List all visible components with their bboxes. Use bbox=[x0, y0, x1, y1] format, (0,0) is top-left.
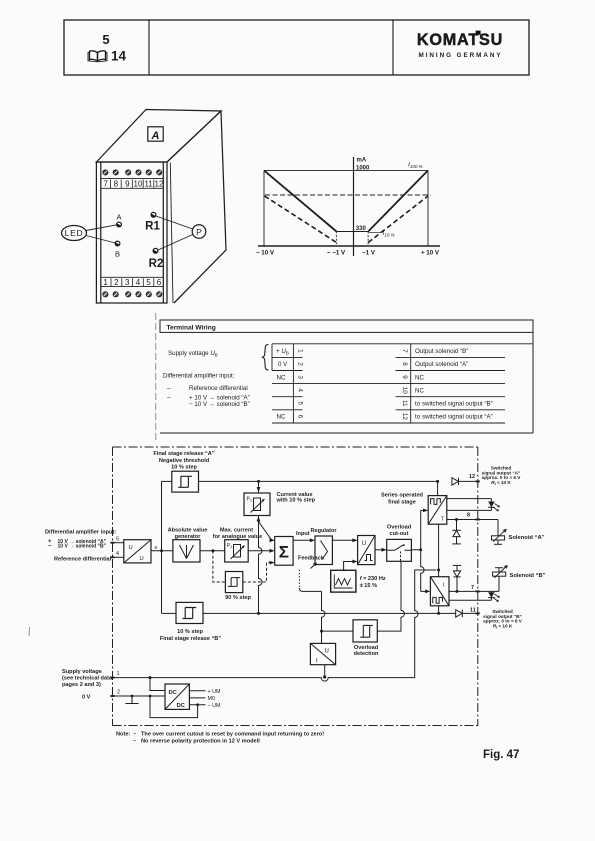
regulator box bbox=[315, 536, 332, 565]
PWM pulse symbol bbox=[365, 555, 373, 561]
svg-text:0 V: 0 V bbox=[278, 361, 288, 368]
wire stage B out lower bbox=[449, 599, 491, 601]
regulator ramp symbol bbox=[321, 541, 328, 560]
label overload detection bbox=[354, 645, 379, 657]
svg-text:9: 9 bbox=[125, 180, 130, 189]
svg-text:12: 12 bbox=[469, 474, 475, 480]
SECTION:DEVICE bbox=[62, 110, 227, 304]
overload cut-out box bbox=[387, 539, 412, 561]
wire UI to overload detection bbox=[322, 591, 354, 643]
front panel inner left edge bbox=[100, 162, 102, 303]
wire solenoid A drop bbox=[497, 520, 499, 536]
svg-text:Final stage release “B”: Final stage release “B” bbox=[160, 636, 221, 642]
arrow into summer bottom bbox=[270, 561, 275, 565]
frame border top bbox=[113, 446, 478, 448]
left cell block verticals bbox=[271, 344, 273, 371]
svg-text:1: 1 bbox=[296, 349, 303, 353]
row line top full bbox=[272, 343, 533, 345]
svg-text:cut-out: cut-out bbox=[390, 531, 409, 537]
svg-text:Differential amplifier input:: Differential amplifier input: bbox=[45, 530, 116, 536]
svg-text:Final stage release “A”: Final stage release “A” bbox=[153, 451, 214, 457]
KOMATSU logo square dot bbox=[476, 31, 481, 35]
terminal 7 tick bbox=[476, 590, 480, 592]
wire UI to rail bbox=[324, 665, 326, 677]
PWM diagonal bbox=[358, 536, 375, 565]
dotted feedback path bbox=[298, 570, 300, 588]
svg-text:R2: R2 bbox=[149, 258, 164, 270]
U/U diagonal bbox=[124, 540, 151, 563]
svg-text:Solenoid “A”: Solenoid “A” bbox=[509, 535, 545, 541]
svg-text:Solenoid “B”: Solenoid “B” bbox=[510, 573, 546, 579]
svg-text:5: 5 bbox=[296, 402, 303, 406]
terminal 5 tick bbox=[110, 542, 114, 544]
90% step symbol bbox=[228, 578, 240, 587]
threshold box release B bbox=[176, 602, 203, 623]
svg-text:MINING GERMANY: MINING GERMANY bbox=[419, 52, 503, 59]
wire input 4 bbox=[113, 556, 124, 558]
wire release A left bbox=[162, 480, 172, 482]
svg-text:Output solenoid “A”: Output solenoid “A” bbox=[415, 361, 468, 368]
svg-text:− 10 V → solenoid “B”: − 10 V → solenoid “B” bbox=[189, 401, 250, 408]
wire abs to P2 bbox=[200, 550, 225, 552]
-1V dropline bbox=[336, 232, 338, 247]
svg-text:1000: 1000 bbox=[356, 166, 370, 172]
I10% pointer bbox=[369, 232, 381, 234]
U/I diagonal bbox=[310, 643, 335, 664]
svg-text:mA: mA bbox=[357, 158, 367, 164]
svg-text:Supply voltage UB: Supply voltage UB bbox=[168, 350, 218, 357]
P1 trimmer symbol bbox=[251, 498, 265, 513]
frame border left bbox=[112, 447, 114, 726]
LED callout line to A bbox=[86, 225, 117, 231]
svg-text:7: 7 bbox=[401, 349, 408, 353]
svg-text:3: 3 bbox=[125, 278, 130, 287]
wire release B left bbox=[162, 612, 177, 614]
wire terminal 8 bbox=[447, 519, 498, 521]
terminal 11 tick bbox=[476, 612, 480, 614]
row line r1 stubs bbox=[272, 356, 303, 358]
svg-text:Reference differential: Reference differential bbox=[189, 385, 248, 392]
svg-text:–: – bbox=[133, 732, 136, 738]
svg-text:8: 8 bbox=[401, 362, 408, 366]
current sense U/I box bbox=[310, 643, 335, 664]
svg-text:2: 2 bbox=[117, 690, 120, 696]
svg-text:Fig. 47: Fig. 47 bbox=[483, 749, 519, 761]
table bottom border bbox=[160, 432, 533, 434]
node final stage B bottom junction bbox=[437, 612, 440, 615]
svg-text:LED: LED bbox=[65, 228, 84, 238]
svg-text:KOMATSU: KOMATSU bbox=[417, 31, 503, 49]
x axis bbox=[258, 245, 440, 247]
label A box on top face bbox=[148, 127, 163, 141]
svg-text:No reverse polarity protection: No reverse polarity protection in 12 V m… bbox=[141, 739, 260, 745]
dashed characteristic right bbox=[368, 196, 428, 243]
svg-text:T: T bbox=[441, 516, 445, 522]
final stage A box bbox=[428, 496, 447, 525]
overload switch symbol bbox=[387, 545, 412, 551]
svg-text:NC: NC bbox=[277, 374, 286, 381]
+1V dropline bbox=[367, 232, 369, 247]
svg-text:12: 12 bbox=[401, 413, 408, 421]
svg-text:11: 11 bbox=[401, 400, 408, 407]
svg-text:2: 2 bbox=[296, 362, 303, 366]
LED A dot bbox=[117, 222, 122, 227]
svg-text:6: 6 bbox=[296, 415, 303, 419]
wire summer to regulator bbox=[293, 539, 313, 541]
node P1 drop junction bbox=[257, 612, 260, 615]
overload trip dashed link bbox=[400, 552, 402, 562]
row line r4 stubs bbox=[272, 396, 303, 398]
svg-text:−1 V: −1 V bbox=[362, 250, 376, 257]
wire terminal 7 bbox=[449, 590, 499, 592]
LED A bbox=[488, 499, 499, 511]
potentiometer box P2 bbox=[225, 540, 249, 562]
svg-text:Reference differential: Reference differential bbox=[54, 557, 112, 563]
svg-text:P: P bbox=[196, 227, 202, 237]
node ground tap bbox=[131, 695, 134, 698]
feedback arrow bbox=[311, 564, 316, 569]
final stage A pulse symbol bbox=[431, 499, 441, 505]
svg-text:7: 7 bbox=[471, 585, 474, 591]
svg-text:pages 2 and 3): pages 2 and 3) bbox=[62, 682, 101, 688]
wire +UM bbox=[189, 690, 205, 692]
dashed mid level line bbox=[265, 194, 431, 196]
threshold box release A bbox=[172, 471, 199, 492]
arrow into regulator bbox=[310, 538, 315, 542]
row line r5 stubs bbox=[272, 409, 303, 411]
separator under top screws bbox=[101, 178, 164, 180]
PWM U-pulse box bbox=[358, 536, 375, 565]
svg-text:f = 230 Hz: f = 230 Hz bbox=[360, 576, 386, 582]
LED B bbox=[488, 591, 499, 601]
P callout line to R2 bbox=[158, 235, 193, 251]
svg-text:+ UM: + UM bbox=[208, 689, 222, 695]
row line bottom full bbox=[272, 422, 505, 424]
terminal 12 tick bbox=[476, 480, 480, 482]
node final stage A feed bbox=[436, 480, 439, 483]
svg-text:with 10 % step: with 10 % step bbox=[276, 498, 316, 504]
terminal wiring header bar bbox=[160, 320, 533, 332]
wire sawtooth to PWM bbox=[344, 562, 356, 571]
svg-text:90 % step: 90 % step bbox=[225, 595, 251, 601]
wire P1 top feed bbox=[258, 481, 260, 493]
node freewheel B tap bbox=[456, 590, 459, 593]
label overload cut-out bbox=[387, 525, 412, 538]
svg-text:U: U bbox=[325, 648, 329, 654]
solenoid A bbox=[492, 529, 507, 545]
table right border bbox=[532, 332, 534, 433]
svg-text:−: − bbox=[48, 544, 52, 550]
summing box bbox=[275, 537, 293, 566]
svg-text:4: 4 bbox=[116, 551, 119, 557]
top number separators bbox=[111, 180, 154, 189]
terminal numbers 1-6 rotated bbox=[296, 349, 303, 419]
wire into final stage B bbox=[421, 590, 429, 592]
left boundary -10V bbox=[263, 170, 265, 246]
svg-text:A: A bbox=[151, 130, 160, 142]
svg-text:6: 6 bbox=[157, 278, 162, 287]
label max current for analogue value bbox=[213, 528, 262, 541]
90% step box bbox=[225, 572, 242, 593]
LED callout oval bbox=[62, 226, 87, 241]
dashed branch to 90% step bbox=[213, 551, 226, 582]
terminal 1 tick bbox=[110, 677, 114, 679]
title block frame bbox=[64, 20, 529, 75]
release B step symbol bbox=[183, 608, 197, 619]
potentiometer box P1 bbox=[244, 493, 270, 516]
node final stage feed bbox=[419, 548, 422, 551]
left cell texts bbox=[276, 348, 289, 421]
svg-text:14: 14 bbox=[111, 49, 127, 64]
DC/DC converter box bbox=[165, 684, 189, 709]
arrow into summer top bbox=[270, 538, 275, 542]
y axis bbox=[353, 157, 355, 256]
book icon bbox=[88, 51, 107, 62]
supply wire 2 bbox=[113, 695, 166, 697]
frame border bottom bbox=[113, 725, 481, 727]
R2 dot bbox=[153, 248, 158, 253]
LED B dot bbox=[115, 241, 120, 246]
svg-text:± 15 %: ± 15 % bbox=[360, 583, 377, 589]
bus to final stages bbox=[421, 510, 424, 591]
arrow sawtooth into PWM bbox=[352, 560, 357, 564]
P2 trimmer symbol bbox=[231, 545, 245, 560]
svg-text:0 V: 0 V bbox=[82, 694, 91, 700]
wire release A output bbox=[199, 480, 438, 482]
separator under bottom numbers bbox=[101, 286, 164, 288]
absolute value symbol bbox=[180, 545, 194, 559]
note text bbox=[116, 732, 324, 745]
wire -UM bbox=[189, 704, 205, 706]
branch P1 to summer bbox=[259, 522, 273, 541]
page crease line bbox=[155, 313, 157, 440]
svg-text:Supply voltage: Supply voltage bbox=[62, 669, 102, 675]
bottom screw terminals row bbox=[103, 292, 162, 297]
wire diode to terminal 11 bbox=[462, 612, 479, 614]
svg-text:330: 330 bbox=[356, 226, 367, 232]
wire into final stage A bbox=[421, 509, 426, 511]
wire stage A out lower bbox=[447, 509, 492, 511]
svg-text:5: 5 bbox=[116, 537, 119, 543]
solid characteristic left bbox=[264, 170, 337, 231]
label differential amplifier input bbox=[45, 530, 116, 563]
svg-text:Max. current: Max. current bbox=[220, 528, 253, 534]
overload detection box bbox=[353, 620, 377, 642]
svg-text:Overload: Overload bbox=[387, 525, 412, 531]
P callout circle bbox=[192, 225, 206, 239]
svg-text:4: 4 bbox=[136, 278, 141, 287]
label switched signal output A bbox=[482, 466, 522, 486]
title block divider right bbox=[392, 20, 394, 75]
title block divider left bbox=[148, 20, 150, 75]
SECTION:GRAPH bbox=[256, 157, 440, 257]
svg-text:Series operated: Series operated bbox=[381, 493, 424, 499]
svg-text:A: A bbox=[116, 213, 121, 222]
svg-text:11: 11 bbox=[470, 608, 476, 614]
right column labels bbox=[415, 348, 493, 421]
label 10% step release B bbox=[160, 629, 221, 642]
svg-text:6: 6 bbox=[155, 545, 158, 551]
svg-text:Feedback: Feedback bbox=[298, 556, 325, 562]
svg-text:8: 8 bbox=[114, 180, 119, 189]
svg-text:2: 2 bbox=[114, 278, 119, 287]
svg-text:8: 8 bbox=[467, 512, 470, 518]
svg-text:–: – bbox=[167, 385, 171, 392]
module front face bbox=[96, 162, 167, 303]
top terminal numbers 7-12 bbox=[103, 180, 164, 189]
arrow into PWM bbox=[352, 538, 357, 542]
svg-text:Regulator: Regulator bbox=[310, 528, 337, 534]
wire P2 to summer bbox=[248, 550, 272, 552]
svg-text:+ 10 V: + 10 V bbox=[421, 250, 440, 257]
frame border right bbox=[477, 447, 479, 726]
wire M0 bbox=[189, 697, 205, 699]
front outer right shell line bbox=[170, 163, 173, 304]
svg-text:10 V → solenoid “B”: 10 V → solenoid “B” bbox=[58, 544, 107, 550]
wire stage B bottom bbox=[438, 606, 440, 614]
svg-text:DC: DC bbox=[169, 690, 178, 696]
svg-text:5: 5 bbox=[102, 32, 109, 47]
brace bbox=[263, 345, 269, 371]
svg-text:B: B bbox=[115, 250, 120, 259]
wire diode to terminal 12 bbox=[459, 480, 480, 482]
wire PWM to overload bbox=[375, 549, 385, 551]
terminal 4 tick bbox=[110, 556, 114, 558]
svg-text:Input: Input bbox=[296, 531, 310, 537]
arrow into overload bbox=[382, 548, 387, 552]
label supply voltage bbox=[62, 669, 113, 688]
svg-text:M0: M0 bbox=[208, 696, 216, 702]
DC/DC diagonal bbox=[165, 684, 189, 709]
node UI rail bbox=[323, 675, 326, 678]
svg-text:9: 9 bbox=[401, 375, 408, 379]
freewheel diode A bbox=[452, 520, 460, 544]
svg-text:U: U bbox=[140, 556, 144, 562]
svg-text:Σ: Σ bbox=[279, 543, 289, 562]
wire input 5 bbox=[113, 542, 124, 544]
front panel inner right edge bbox=[162, 162, 164, 303]
diode D12 bbox=[452, 478, 459, 485]
R1 dot bbox=[151, 212, 156, 217]
svg-text:NC: NC bbox=[277, 414, 286, 421]
wire stage A to stage B series bbox=[438, 524, 440, 577]
dashed characteristic left bbox=[265, 196, 337, 243]
separator under top numbers bbox=[101, 187, 164, 189]
node abs output bbox=[211, 549, 214, 552]
svg-text:R1: R1 bbox=[145, 221, 160, 233]
svg-text:U: U bbox=[362, 540, 366, 547]
final stage B box bbox=[430, 577, 449, 606]
svg-text:10: 10 bbox=[401, 387, 408, 395]
svg-text:− 10 V: − 10 V bbox=[256, 250, 275, 257]
row line r3 full bbox=[272, 383, 505, 385]
solenoid B bbox=[493, 565, 508, 592]
arrow into summer mid bbox=[270, 549, 275, 553]
final stage A diagonal bbox=[428, 496, 447, 525]
wire -UM return loop bbox=[150, 696, 198, 718]
arrow into final stage B bbox=[425, 590, 430, 594]
wire release B output line 11 bbox=[203, 612, 456, 614]
svg-text:DC: DC bbox=[177, 703, 186, 709]
svg-text:(see technical data: (see technical data bbox=[62, 675, 113, 681]
wire release A diode feed bbox=[452, 478, 459, 485]
node series stage midpoint bbox=[437, 569, 440, 572]
wire stage A series link bbox=[437, 481, 439, 495]
svg-text:7: 7 bbox=[103, 180, 108, 189]
node P1 top bbox=[257, 480, 260, 483]
separator above bottom numbers bbox=[101, 276, 164, 278]
svg-text:Negative threshold: Negative threshold bbox=[159, 458, 210, 464]
svg-text:11: 11 bbox=[144, 180, 153, 189]
svg-text:The over current cutout is res: The over current cutout is reset by comm… bbox=[141, 732, 324, 738]
final stage B pulse symbol bbox=[433, 597, 443, 603]
node freewheel A tap bbox=[455, 518, 458, 521]
top screw terminals row bbox=[103, 170, 162, 175]
SECTION:HEADER bbox=[64, 20, 529, 75]
node wire2 loop bbox=[149, 695, 152, 698]
label frequency bbox=[360, 576, 386, 589]
bottom terminal numbers 1-6 bbox=[103, 278, 161, 287]
right boundary +10V bbox=[427, 170, 429, 246]
terminal 2 tick bbox=[110, 695, 114, 697]
overload trip wire down bbox=[377, 561, 404, 631]
differential amplifier U/U box bbox=[124, 540, 151, 563]
wire regulator to PWM bbox=[332, 539, 355, 541]
right numbers column border bbox=[410, 344, 412, 423]
svg-text:U: U bbox=[129, 545, 133, 551]
label absolute value generator bbox=[168, 528, 208, 541]
bus vertical releases bbox=[161, 481, 163, 613]
ground symbol bbox=[126, 696, 139, 704]
LED callout line to B bbox=[86, 236, 116, 244]
node releases bus tap bbox=[160, 549, 163, 552]
svg-text:1: 1 bbox=[103, 278, 108, 287]
sawtooth waveform bbox=[334, 575, 352, 589]
module top face bbox=[96, 110, 221, 163]
svg-text:4: 4 bbox=[296, 388, 303, 392]
wire U/U output bbox=[151, 550, 173, 552]
svg-text:Differential amplifier input:: Differential amplifier input: bbox=[163, 373, 235, 380]
dashed wire 90% to summer bbox=[243, 563, 273, 582]
label final stage release A bbox=[153, 451, 214, 471]
svg-text:–: – bbox=[167, 395, 171, 402]
svg-text:Note:: Note: bbox=[116, 732, 130, 738]
module side face bbox=[167, 111, 226, 303]
svg-text:NC: NC bbox=[415, 387, 424, 394]
svg-text:Terminal Wiring: Terminal Wiring bbox=[167, 325, 216, 332]
node -UM loop bbox=[196, 703, 199, 706]
overload detection step symbol bbox=[360, 625, 372, 637]
terminal 8 tick bbox=[476, 519, 480, 521]
arrow into final stage A bbox=[423, 509, 428, 513]
SECTION:FOOTER bbox=[116, 732, 519, 761]
final stage B diagonal bbox=[430, 577, 449, 606]
freewheel diode B bbox=[453, 565, 461, 591]
node DC feed bbox=[149, 676, 152, 679]
svg-text:detection: detection bbox=[354, 651, 379, 657]
330 level segment bbox=[337, 231, 369, 233]
sawtooth generator box bbox=[331, 570, 356, 592]
absolute value box bbox=[173, 540, 200, 562]
svg-text:− UM: − UM bbox=[208, 703, 222, 709]
svg-text:− −1 V: − −1 V bbox=[327, 250, 346, 257]
node feedback tap bbox=[320, 630, 323, 633]
bottom number separators bbox=[111, 278, 154, 286]
svg-text:5: 5 bbox=[146, 278, 151, 287]
SECTION:TABLE bbox=[156, 313, 533, 440]
wire P1 bottom drop bbox=[259, 516, 263, 614]
diode D11 bbox=[456, 610, 463, 617]
